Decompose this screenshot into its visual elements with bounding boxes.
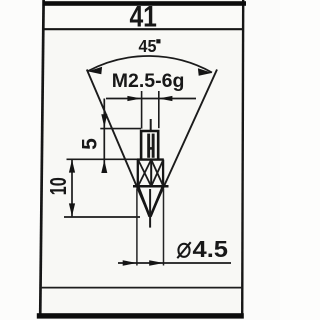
threaded stud outline [141,131,158,159]
thread inner line left [147,134,150,158]
svg-text:5: 5 [78,138,101,150]
border top thick [43,1,247,6]
page margin left of border [0,0,44,320]
svg-text:M2.5-6g: M2.5-6g [112,70,185,92]
extension line at cone tip level [64,216,140,218]
dia dim arrow inner (points right, tip at right ext line) [149,260,164,265]
dimension arc for 45 degree angle [88,56,212,72]
thread dimension line M2.5 [106,98,196,100]
border right [242,0,243,317]
collar knurl hatch [138,160,163,185]
drawing paper area [40,0,244,318]
svg-text:10: 10 [45,177,71,195]
thread extension line right [158,91,160,128]
title separator line [43,28,244,30]
diameter symbol [177,242,190,258]
dim 10 arrow top (points up, tip at collar-top line) [69,160,75,173]
dia dim arrow outer (points right, tip at left ext line) [123,260,138,265]
cone right side [150,186,163,216]
dimension 5 vertical line [103,99,105,172]
svg-text:41: 41 [129,1,157,34]
cone centerline [149,189,151,228]
collar left edge [137,160,139,187]
arc arrowhead right [198,68,212,75]
stud centerline stub above [150,119,152,131]
dimension 10 vertical line [71,160,73,217]
border left [40,0,43,318]
dim 10 arrow bottom (points down, tip at tip-level line) [69,203,75,216]
title box background [42,2,242,29]
diameter dimension line [118,262,231,264]
collar center line [150,160,152,187]
extension line at stud top for dim 5 [100,128,141,130]
thread extension line left [141,91,143,129]
thread inner line right [152,134,155,158]
collar bottom edge [133,185,169,188]
collar right edge [162,160,164,187]
thread dim arrow right (points left, tip at right extension line) [158,96,172,101]
svg-text:45: 45 [139,36,157,56]
degree mark [156,39,160,43]
diameter extension line left [136,189,138,266]
border bottom thick [37,313,244,318]
extension line at collar top (shared by dims 5 and 10) [67,158,140,160]
footer separator line [40,287,242,289]
arc arrowhead left [88,67,102,74]
diameter extension line right [163,189,165,266]
angle line right (cone flank extension) [150,70,217,217]
thread dim arrow left (points right, tip at left extension line) [127,96,141,101]
dim 5 arrow bottom (points up, tip below lower extension line) [101,160,107,173]
thread inner crossbar [148,147,154,150]
svg-text:4.5: 4.5 [193,236,229,262]
collar top edge [137,158,164,160]
cone left side [138,186,150,216]
angle line left (cone flank extension) [87,70,150,217]
dim 5 arrow top (points down, tip above upper extension line) [101,114,107,127]
